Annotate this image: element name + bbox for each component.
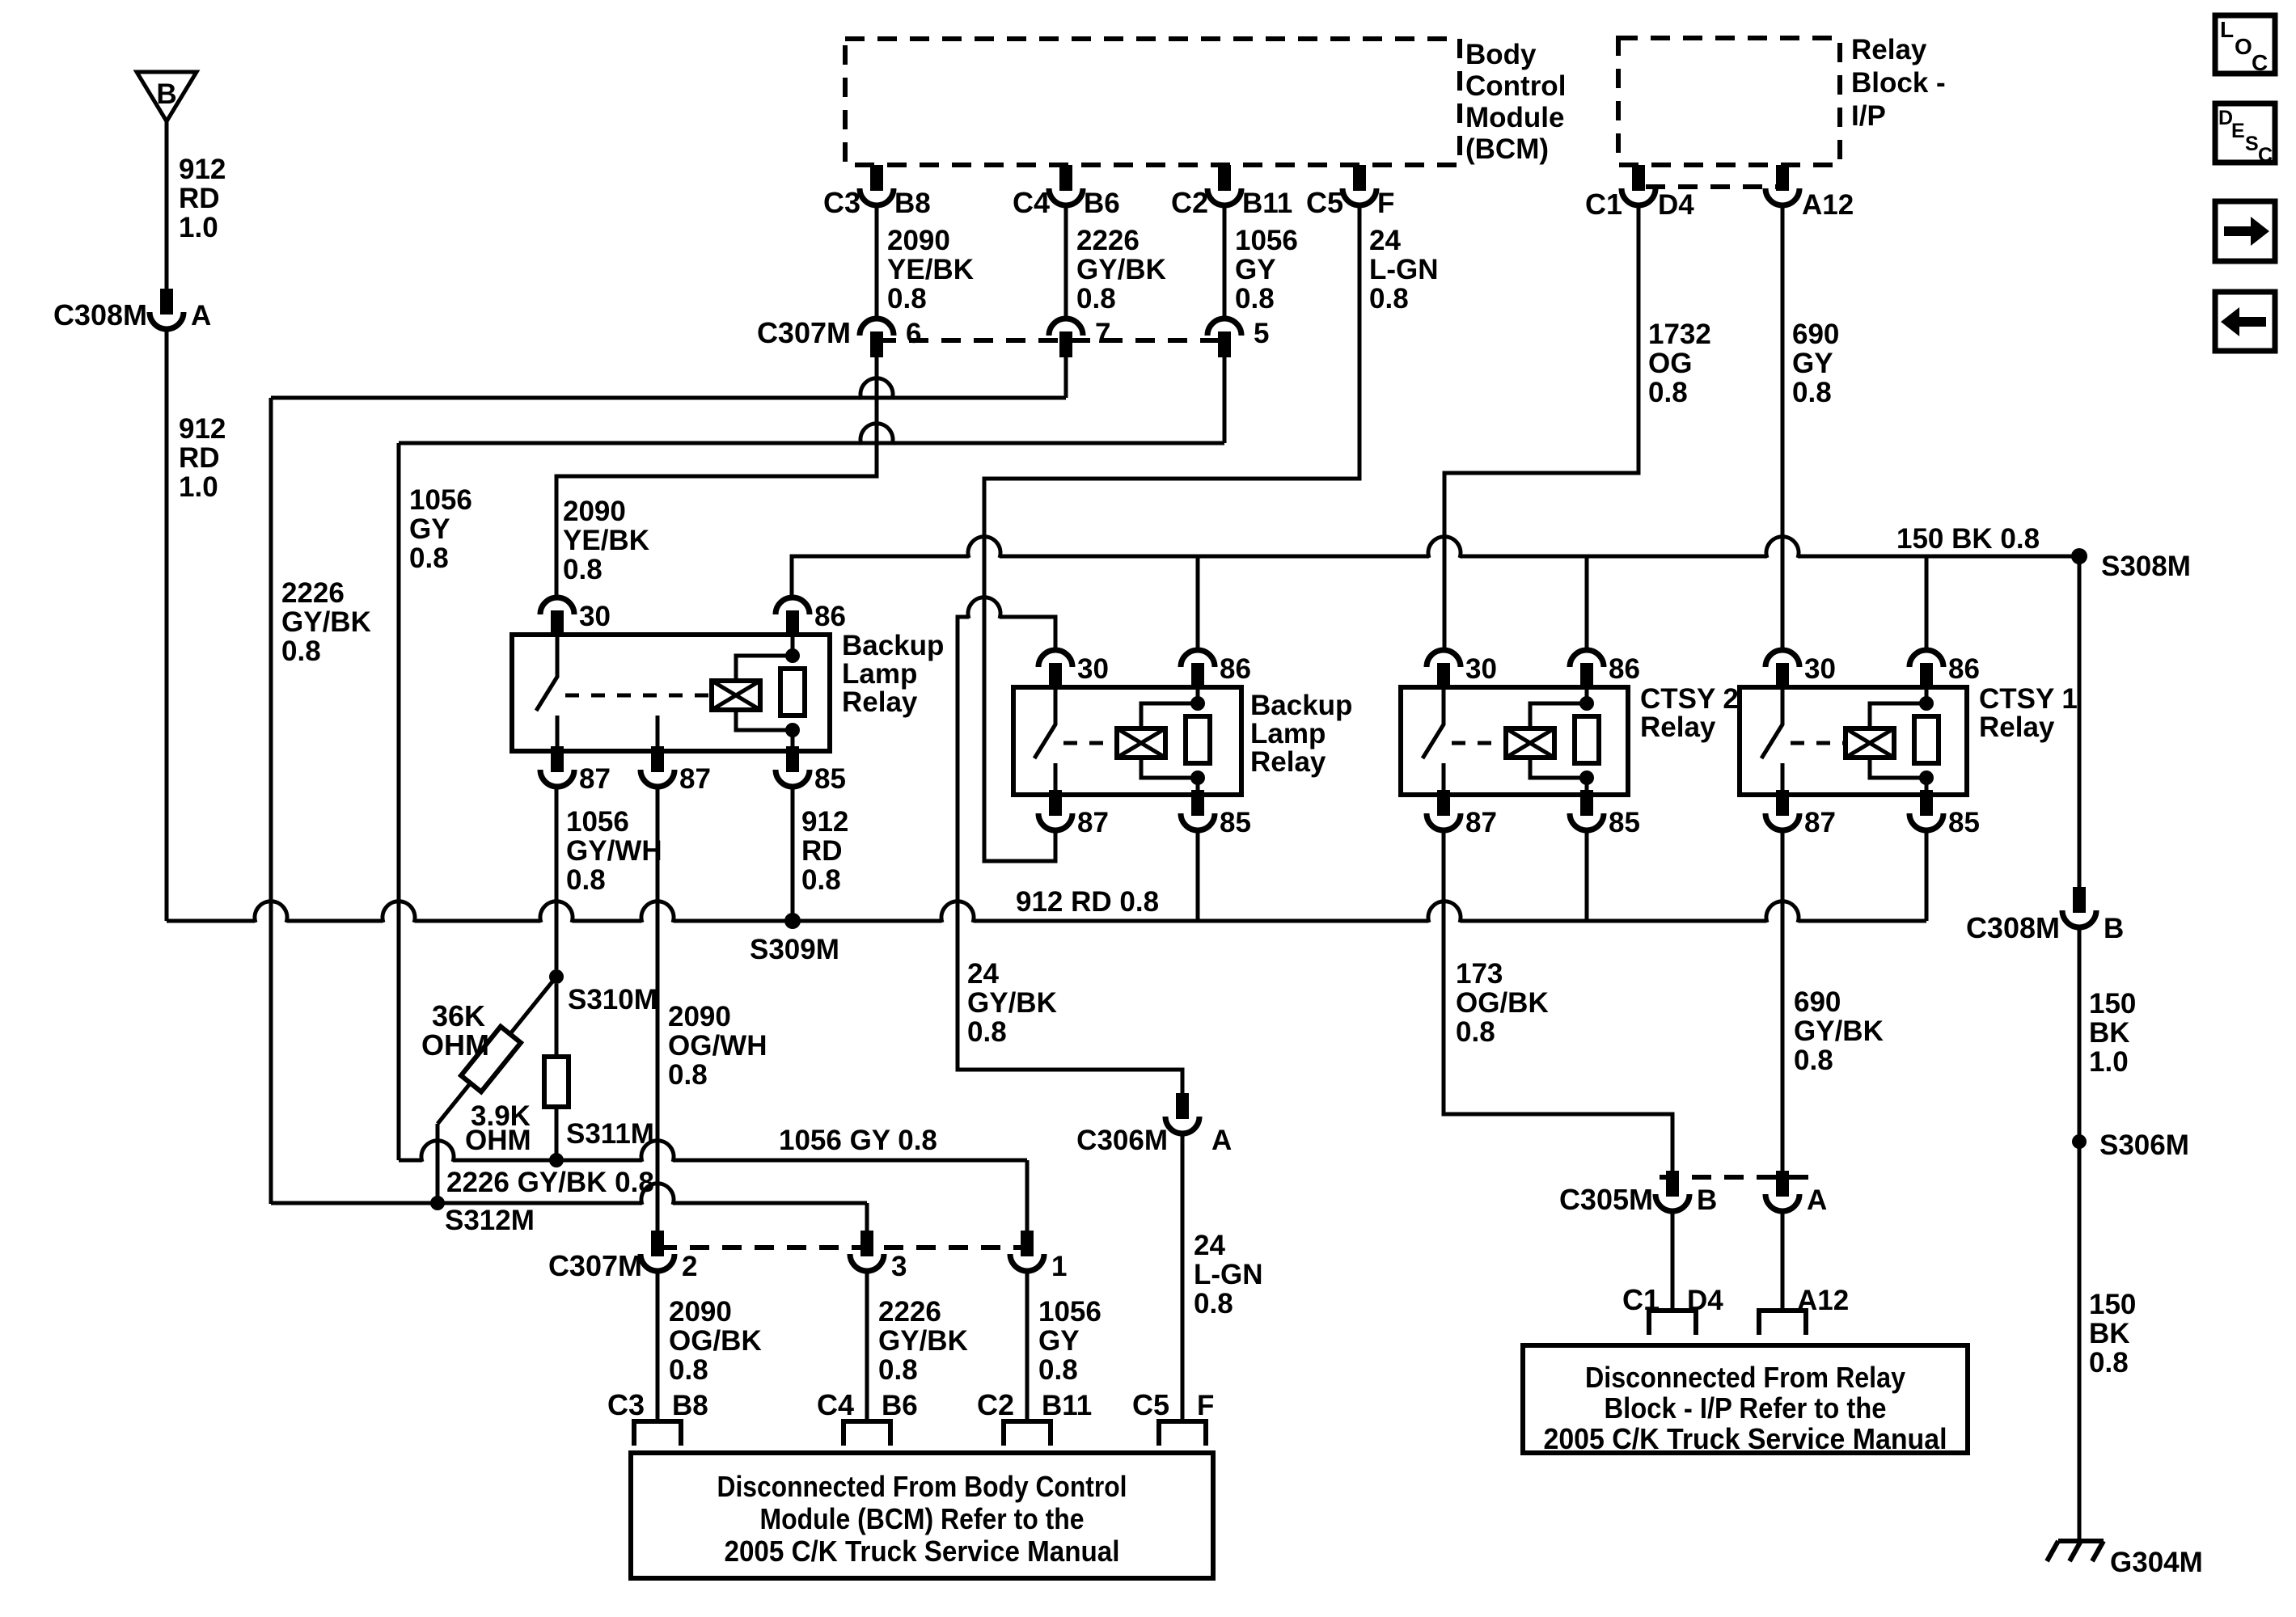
wire 2090 OG/BK (C307M 2 down to terminal B8): [656, 1273, 660, 1421]
svg-text:24: 24: [1194, 1230, 1225, 1261]
wire 2090 OG/WH (relay1 87b down to C307M pin 2): [656, 787, 660, 1231]
svg-text:0.8: 0.8: [281, 635, 321, 667]
svg-text:5: 5: [1254, 318, 1269, 349]
svg-text:OG: OG: [1648, 348, 1692, 379]
svg-text:S311M: S311M: [566, 1118, 654, 1150]
svg-text:S306M: S306M: [2099, 1129, 2189, 1161]
splice S311M: [549, 1153, 564, 1167]
wire (C305M B down to disconnected terminal D4): [1671, 1212, 1675, 1311]
svg-text:Module (BCM) Refer to the: Module (BCM) Refer to the: [760, 1502, 1085, 1535]
svg-text:24: 24: [1369, 225, 1401, 256]
wire 1056 GY (C307M 5 left along y=548, down x=493 to S311M line): [1223, 357, 1227, 443]
svg-text:OG/BK: OG/BK: [1456, 987, 1549, 1019]
svg-text:1056: 1056: [566, 806, 629, 838]
svg-text:912: 912: [179, 154, 226, 185]
splice S312M: [430, 1196, 445, 1210]
svg-text:0.8: 0.8: [1194, 1288, 1233, 1319]
svg-text:B: B: [2104, 913, 2124, 944]
svg-text:A: A: [191, 300, 211, 331]
wire 24 GY/BK (relay2 pin 30 up, left along y=763, down x=1184, right y=1323, down to C306M A): [958, 597, 1182, 1093]
svg-text:GY/BK: GY/BK: [281, 606, 371, 638]
svg-text:0.8: 0.8: [1235, 283, 1275, 315]
svg-text:0.8: 0.8: [668, 1059, 708, 1091]
svg-text:C2: C2: [977, 1388, 1014, 1421]
svg-text:C2: C2: [1171, 186, 1208, 219]
svg-text:S312M: S312M: [445, 1205, 535, 1236]
svg-text:173: 173: [1456, 958, 1503, 990]
svg-text:Module: Module: [1465, 102, 1564, 133]
svg-text:F: F: [1377, 188, 1394, 219]
svg-text:C5: C5: [1306, 186, 1343, 219]
svg-text:86: 86: [1609, 653, 1640, 685]
icon DESC box: [2215, 103, 2275, 163]
svg-text:Relay: Relay: [1979, 711, 2055, 743]
svg-text:0.8: 0.8: [1456, 1016, 1495, 1048]
svg-text:A12: A12: [1797, 1285, 1849, 1316]
connector C307M pin 3: [860, 1231, 873, 1256]
svg-text:24: 24: [967, 958, 999, 990]
svg-text:912: 912: [179, 413, 226, 445]
icon forward arrow box: [2215, 201, 2275, 261]
svg-text:0.8: 0.8: [801, 864, 841, 896]
svg-text:85: 85: [1948, 807, 1980, 838]
ground G304M: [2058, 1539, 2104, 1543]
svg-text:RD: RD: [801, 835, 843, 867]
svg-text:I/P: I/P: [1851, 100, 1886, 132]
svg-text:0.8: 0.8: [409, 543, 449, 574]
svg-text:C306M: C306M: [1076, 1125, 1168, 1156]
svg-text:3: 3: [891, 1251, 907, 1282]
svg-text:85: 85: [1609, 807, 1640, 838]
svg-text:1056: 1056: [1235, 225, 1298, 256]
svg-text:0.8: 0.8: [1076, 283, 1116, 315]
wire 1056 GY 0.8 (S311M line to C307M pin 1): [399, 1141, 1027, 1162]
disconnected terminal A12: [1759, 1311, 1806, 1335]
wire 1056 GY/WH (relay1 87 down to S310M and 3.9K resistor to S311M): [555, 787, 559, 969]
svg-text:GY/BK: GY/BK: [878, 1325, 968, 1357]
wire (relay4 pin 86 riser): [1925, 556, 1929, 648]
svg-text:2090: 2090: [563, 496, 626, 527]
svg-text:85: 85: [1220, 807, 1251, 838]
connector C307M pin 6: [860, 319, 894, 336]
wire (relay2 87 down to corner joining 24 L-GN): [1054, 831, 1058, 861]
icon LOC box: [2215, 15, 2275, 74]
splice S310M: [549, 969, 564, 984]
Relay Block - I/P dashed box: [1618, 38, 1840, 165]
svg-text:Lamp: Lamp: [842, 658, 917, 690]
wire 173 OG/BK (relay3 87 down, right along y=1378, down to C305M B): [1444, 831, 1672, 1171]
wire (relay2 85 down to 912 RD bus): [1196, 831, 1200, 921]
svg-text:YE/BK: YE/BK: [887, 254, 974, 285]
svg-text:C3: C3: [823, 186, 860, 219]
svg-text:O: O: [2235, 34, 2252, 59]
wire 2226 GY/BK (C307M 3 down to terminal B6): [865, 1273, 869, 1421]
relay CTSY 2 Relay: [1401, 687, 1628, 795]
svg-text:Relay: Relay: [1851, 34, 1927, 65]
svg-text:C307M: C307M: [548, 1249, 642, 1282]
svg-text:S310M: S310M: [568, 984, 658, 1015]
wire 912 RD 0.8 bus (horizontal): [167, 901, 1926, 922]
svg-text:6: 6: [906, 318, 921, 349]
wire (C305M A down to disconnected terminal A12): [1781, 1212, 1785, 1311]
svg-text:1056: 1056: [409, 484, 472, 516]
wire 912 RD 1.0 (triangle B down to C308M pin A): [165, 121, 169, 289]
connector C305M pin B: [1666, 1171, 1679, 1197]
svg-text:Disconnected From Body Control: Disconnected From Body Control: [717, 1470, 1127, 1503]
svg-text:GY/BK: GY/BK: [1076, 254, 1166, 285]
svg-text:30: 30: [1077, 653, 1109, 685]
svg-text:87: 87: [1077, 807, 1109, 838]
BCM connector pin C5/F: [1353, 165, 1366, 191]
connector C308M pin B: [2073, 887, 2086, 913]
svg-text:0.8: 0.8: [2089, 1347, 2129, 1378]
Relay Block connector face dashed line: [1646, 184, 1779, 189]
svg-text:2005 C/K Truck Service Manual: 2005 C/K Truck Service Manual: [725, 1535, 1120, 1568]
disconnected terminal C4/B6: [844, 1421, 890, 1446]
svg-text:A: A: [1211, 1125, 1232, 1156]
svg-text:OHM: OHM: [465, 1125, 531, 1156]
svg-text:912 RD 0.8: 912 RD 0.8: [1016, 886, 1159, 918]
svg-text:YE/BK: YE/BK: [563, 525, 649, 556]
svg-text:Lamp: Lamp: [1250, 718, 1326, 749]
resistor 36K OHM (diagonal) with branch to S312M: [438, 977, 556, 1124]
wire 150 BK (S308M down to C308M pin B): [2078, 556, 2082, 887]
wire 912 RD 1.0 (C308M A down to 912 RD bus): [165, 330, 169, 921]
svg-text:B6: B6: [1084, 188, 1120, 219]
svg-text:0.8: 0.8: [563, 554, 603, 585]
svg-text:B11: B11: [1042, 1390, 1092, 1421]
svg-text:1.0: 1.0: [179, 212, 218, 243]
wire (relay4 85 down to 912 RD bus): [1925, 831, 1929, 921]
wire 24 L-GN 0.8 (C306M A down to disconnected terminal F): [1181, 1134, 1185, 1421]
svg-text:GY/WH: GY/WH: [566, 835, 662, 867]
svg-text:0.8: 0.8: [887, 283, 927, 315]
disconnected terminal C3/B8: [634, 1421, 681, 1446]
svg-text:Backup: Backup: [1250, 690, 1352, 721]
disconnected terminal C5/F: [1159, 1421, 1206, 1446]
wire 2226 GY/BK 0.8 (S312M line to C307M pin 3): [271, 1184, 867, 1205]
svg-text:C308M: C308M: [1966, 911, 2060, 944]
svg-text:C3: C3: [607, 1388, 645, 1421]
svg-text:150: 150: [2089, 988, 2136, 1020]
Relay Block pin D4: [1632, 165, 1645, 191]
note box Disconnected From Relay Block: [1523, 1345, 1968, 1453]
svg-text:B8: B8: [672, 1390, 708, 1421]
svg-text:Block -: Block -: [1851, 67, 1946, 99]
svg-text:C307M: C307M: [757, 316, 851, 349]
svg-text:0.8: 0.8: [1648, 377, 1688, 408]
wire 1056 GY (BCM C2/B11 down to C307M pin 5): [1223, 208, 1227, 316]
svg-text:Block - I/P Refer to the: Block - I/P Refer to the: [1605, 1391, 1887, 1425]
connector C307M pin 7: [1049, 319, 1083, 336]
svg-text:(BCM): (BCM): [1465, 133, 1549, 165]
wire 2090 YE/BK (C307M 6 to corner, left along y=589, down to relay1 pin 30): [556, 357, 877, 595]
svg-text:1056: 1056: [1038, 1296, 1101, 1328]
Relay Block pin A12: [1776, 165, 1789, 191]
svg-text:0.8: 0.8: [967, 1016, 1007, 1048]
svg-text:1.0: 1.0: [2089, 1046, 2129, 1078]
svg-text:30: 30: [1804, 653, 1836, 685]
svg-text:B6: B6: [882, 1390, 918, 1421]
svg-text:85: 85: [814, 763, 846, 795]
svg-text:1732: 1732: [1648, 319, 1711, 350]
svg-text:CTSY 1: CTSY 1: [1979, 683, 2078, 715]
svg-text:2226 GY/BK 0.8: 2226 GY/BK 0.8: [446, 1167, 654, 1198]
connector C305M pin A: [1776, 1171, 1789, 1197]
svg-text:2090: 2090: [668, 1001, 731, 1032]
svg-text:B: B: [156, 78, 176, 110]
svg-text:Relay: Relay: [1250, 746, 1326, 778]
svg-text:OG/BK: OG/BK: [669, 1325, 762, 1357]
svg-text:Relay: Relay: [1640, 711, 1716, 743]
svg-text:0.8: 0.8: [1369, 283, 1409, 315]
wire 912 RD (relay1 85 down to S309M): [791, 787, 795, 921]
svg-text:690: 690: [1794, 986, 1841, 1018]
svg-text:0.8: 0.8: [1792, 377, 1832, 408]
disconnected terminal C1/D4: [1649, 1311, 1696, 1335]
svg-text:7: 7: [1095, 318, 1110, 349]
svg-text:OHM: OHM: [421, 1028, 489, 1062]
svg-text:GY: GY: [1792, 348, 1833, 379]
splice S308M: [2071, 548, 2087, 564]
svg-text:L-GN: L-GN: [1194, 1259, 1263, 1290]
svg-text:BK: BK: [2089, 1318, 2130, 1349]
splice S306M: [2072, 1134, 2087, 1149]
svg-text:Control: Control: [1465, 70, 1566, 102]
svg-text:150 BK 0.8: 150 BK 0.8: [1896, 523, 2040, 555]
svg-text:B11: B11: [1242, 188, 1292, 219]
svg-text:87: 87: [1465, 807, 1497, 838]
svg-text:Disconnected From Relay: Disconnected From Relay: [1585, 1361, 1905, 1394]
svg-text:1056 GY 0.8: 1056 GY 0.8: [779, 1125, 937, 1156]
svg-text:2: 2: [682, 1251, 697, 1282]
connector C307M pin 5: [1207, 319, 1241, 336]
svg-text:912: 912: [801, 806, 848, 838]
svg-text:86: 86: [1948, 653, 1980, 685]
note box Disconnected From Body Control Module: [631, 1453, 1213, 1578]
svg-text:30: 30: [579, 601, 611, 632]
svg-text:C308M: C308M: [53, 298, 147, 331]
resistor 3.9K OHM: [544, 1057, 569, 1107]
disconnected terminal C2/B11: [1004, 1421, 1051, 1446]
wire 2226 GY/BK (BCM C4/B6 down to C307M pin 7): [1064, 208, 1068, 316]
svg-text:Relay: Relay: [842, 686, 918, 718]
connector C308M pin A: [160, 289, 173, 315]
svg-text:0.8: 0.8: [669, 1354, 708, 1386]
svg-text:690: 690: [1792, 319, 1839, 350]
svg-text:1: 1: [1051, 1251, 1067, 1282]
connector C305M dashed face line: [1660, 1175, 1818, 1180]
connector C307M dashed face line: [877, 338, 1229, 343]
svg-text:E: E: [2231, 120, 2245, 142]
svg-text:GY/BK: GY/BK: [1794, 1015, 1884, 1047]
connector C307M pin 2: [651, 1231, 664, 1256]
svg-text:GY: GY: [1038, 1325, 1080, 1357]
connector C307M pin 1: [1021, 1231, 1034, 1256]
BCM connector pin C4/B6: [1059, 165, 1072, 191]
wire 2226 GY/BK (C307M 7 left along y=492, down x=335 to S312M line): [271, 378, 1066, 399]
svg-text:L: L: [2220, 17, 2234, 42]
svg-text:1.0: 1.0: [179, 471, 218, 503]
wire 1056 GY (C307M 1 down to terminal B11): [1025, 1273, 1030, 1421]
wire 24 L-GN (BCM C5/F down, left along y=592, down x=1217, to relay2 pin 87): [984, 208, 1359, 861]
svg-text:C4: C4: [1013, 186, 1050, 219]
svg-text:S309M: S309M: [750, 934, 839, 965]
wire 1732 OG (Relay block C1/D4 down, left along y=585, down x=1786 to relay3 pin 30): [1444, 208, 1638, 648]
svg-text:0.8: 0.8: [566, 864, 606, 896]
relay Backup Lamp Relay #1: [512, 635, 830, 751]
svg-text:0.8: 0.8: [1794, 1045, 1833, 1076]
svg-text:GY: GY: [409, 513, 450, 545]
svg-text:2226: 2226: [878, 1296, 941, 1328]
svg-text:D4: D4: [1687, 1285, 1723, 1316]
svg-text:2226: 2226: [1076, 225, 1140, 256]
connector C307M bottom dashed face line: [658, 1245, 1043, 1250]
svg-text:GY: GY: [1235, 254, 1276, 285]
svg-text:C4: C4: [817, 1388, 854, 1421]
svg-text:87: 87: [679, 763, 711, 795]
svg-text:87: 87: [579, 763, 611, 795]
svg-text:C1: C1: [1585, 188, 1622, 221]
svg-text:C1: C1: [1622, 1283, 1660, 1316]
svg-text:A12: A12: [1802, 189, 1854, 221]
icon back arrow box: [2215, 292, 2275, 351]
svg-text:0.8: 0.8: [878, 1354, 918, 1386]
wire 150 BK 0.8 (relay1 pin 86 up, right to S308M splice): [792, 537, 2079, 595]
wire 2090 YE/BK (BCM C3/B8 down to C307M pin 6): [875, 208, 879, 316]
wire 150 BK (S306M down to ground G304M): [2078, 1142, 2082, 1541]
svg-text:A: A: [1807, 1184, 1827, 1216]
Body Control Module (BCM) dashed box: [845, 39, 1460, 165]
svg-text:GY/BK: GY/BK: [967, 987, 1057, 1019]
svg-text:2090: 2090: [669, 1296, 732, 1328]
svg-text:B: B: [1697, 1184, 1717, 1216]
svg-text:F: F: [1197, 1390, 1214, 1421]
svg-text:2226: 2226: [281, 577, 345, 609]
svg-text:Body: Body: [1465, 39, 1537, 70]
wire 690 GY/BK (relay4 87 down to C305M A): [1781, 831, 1785, 1171]
wire (relay3 pin 86 riser): [1585, 556, 1589, 648]
svg-text:BK: BK: [2089, 1017, 2130, 1049]
svg-text:86: 86: [814, 601, 846, 632]
wire (relay2 pin 86 riser): [1196, 556, 1200, 648]
svg-text:C: C: [2258, 144, 2273, 167]
connector C306M pin A: [1176, 1093, 1189, 1119]
svg-text:87: 87: [1804, 807, 1836, 838]
BCM connector pin C2/B11: [1218, 165, 1231, 191]
splice S309M: [784, 913, 801, 929]
svg-text:D4: D4: [1658, 189, 1694, 221]
wire (relay3 85 down to 912 RD bus): [1585, 831, 1589, 921]
svg-text:2090: 2090: [887, 225, 950, 256]
svg-text:OG/WH: OG/WH: [668, 1030, 767, 1062]
svg-text:Backup: Backup: [842, 630, 944, 661]
svg-text:RD: RD: [179, 183, 220, 214]
svg-text:36K: 36K: [432, 999, 485, 1032]
relay CTSY 1 Relay: [1740, 687, 1967, 795]
svg-text:C5: C5: [1132, 1388, 1169, 1421]
svg-text:2005 C/K Truck Service Manual: 2005 C/K Truck Service Manual: [1544, 1422, 1947, 1455]
wire 690 GY (Relay block A12 straight down to relay4 pin 30): [1781, 208, 1785, 648]
wire 150 BK (C308M B down to S306M): [2078, 928, 2082, 1142]
svg-text:S308M: S308M: [2101, 551, 2191, 582]
svg-text:RD: RD: [179, 442, 220, 474]
svg-text:86: 86: [1220, 653, 1251, 685]
svg-text:C: C: [2252, 50, 2268, 75]
svg-text:C305M: C305M: [1559, 1183, 1653, 1216]
connector triangle B (off-page reference): [137, 72, 197, 121]
svg-text:B8: B8: [894, 188, 931, 219]
svg-text:CTSY 2: CTSY 2: [1640, 683, 1739, 715]
svg-text:S: S: [2245, 133, 2259, 155]
relay Backup Lamp Relay #2: [1013, 687, 1241, 795]
svg-text:L-GN: L-GN: [1369, 254, 1439, 285]
svg-text:30: 30: [1465, 653, 1497, 685]
svg-text:150: 150: [2089, 1289, 2136, 1320]
svg-text:0.8: 0.8: [1038, 1354, 1078, 1386]
BCM connector pin C3/B8: [870, 165, 883, 191]
svg-text:G304M: G304M: [2110, 1547, 2203, 1578]
